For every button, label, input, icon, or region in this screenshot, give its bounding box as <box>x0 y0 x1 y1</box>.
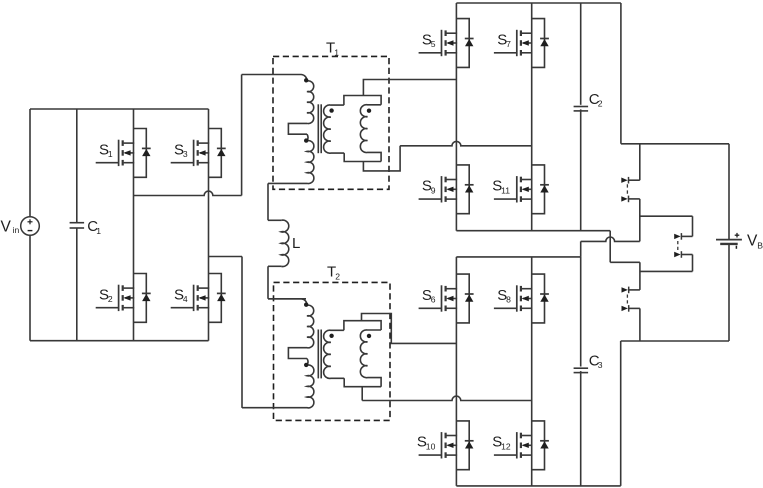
T2 primary center-tap step <box>288 348 307 359</box>
wire bottom rail of lower output bridge <box>456 485 620 487</box>
wire C2 leg <box>580 3 582 231</box>
T1 primary winding upper half <box>242 75 314 124</box>
transistor S12 <box>516 432 518 458</box>
wire node J2 to switch C <box>629 289 640 291</box>
T2 secondary parallel top wire <box>344 321 381 331</box>
wire battery - rail <box>621 340 729 342</box>
transformer T2 dashed box <box>274 282 391 420</box>
battery VB <box>716 239 742 241</box>
transistor S9 <box>441 176 443 202</box>
T2 primary lower entry <box>306 359 309 366</box>
T1 secondary output + tap <box>363 80 456 96</box>
switch C gang dashed link <box>626 295 628 306</box>
T2 secondary winding 1 <box>324 330 345 378</box>
T1 primary dot lower <box>304 138 308 142</box>
wire top rail of upper output bridge <box>456 2 621 4</box>
wire inductor to T2 primary top <box>268 265 281 267</box>
inductor L <box>281 220 288 266</box>
T1 secondary parallel top wire <box>344 96 381 106</box>
wire S6-S10 leg <box>455 257 457 486</box>
T1 core <box>317 104 319 153</box>
T2 primary winding lower coil <box>242 365 314 408</box>
transistor S2 <box>118 285 120 311</box>
switch contact C top <box>628 287 630 294</box>
T1 secondary winding 1 <box>324 105 345 153</box>
wire T1 primary bottom to inductor <box>267 183 269 220</box>
T2 primary winding upper half <box>268 299 314 348</box>
wire S8-S12 leg <box>531 257 533 486</box>
T2 secondary winding 2 <box>360 330 381 387</box>
svg-text:9: 9 <box>431 186 436 196</box>
wire left vertical above Vin <box>29 109 31 217</box>
capacitor C1 <box>70 222 85 224</box>
svg-text:11: 11 <box>501 186 510 196</box>
wire switch C output to battery - rail <box>629 307 640 309</box>
T2 primary dot upper <box>304 303 308 307</box>
transistor S4 <box>193 285 195 311</box>
T2 secondary output + tap <box>362 314 457 344</box>
T2 secondary 2 dot <box>367 334 371 338</box>
T1 secondary 2 dot <box>367 109 371 113</box>
wire switch B input stub <box>681 235 692 237</box>
svg-text:5: 5 <box>431 39 436 49</box>
svg-text:8: 8 <box>506 295 511 305</box>
capacitor C2 <box>574 105 588 110</box>
wire left vertical below Vin <box>29 235 31 341</box>
wire upper bridge bottom rail to node J2 <box>609 231 611 263</box>
svg-text:B: B <box>757 240 763 250</box>
wire node J1 branch to switch B <box>640 215 693 217</box>
wire S1-S2 leg <box>133 109 135 341</box>
svg-text:V: V <box>1 218 12 235</box>
T1 primary dot upper <box>304 78 308 82</box>
T1 primary center-tap step <box>288 123 307 134</box>
wire S5-S9 leg <box>455 3 457 231</box>
T1 secondary parallel bottom wire <box>344 153 381 161</box>
transistor S11 <box>516 176 518 202</box>
svg-text:3: 3 <box>598 360 603 370</box>
switch contact B top <box>680 233 682 240</box>
T2 core <box>317 330 319 379</box>
switch contact A bottom <box>628 196 630 203</box>
wire S7-S11 leg <box>531 3 533 231</box>
wire top rail down to switch A and battery + <box>620 3 622 144</box>
svg-text:6: 6 <box>431 295 436 305</box>
T1 primary winding lower coil <box>268 141 314 184</box>
capacitor C3 <box>574 367 588 372</box>
switch A gang dashed link <box>626 184 628 195</box>
transformer T1 dashed box <box>273 56 389 189</box>
svg-text:2: 2 <box>335 271 340 281</box>
wire switch A input <box>639 144 641 180</box>
transistor S5 <box>441 30 443 56</box>
svg-text:10: 10 <box>426 442 436 452</box>
svg-text:1: 1 <box>108 149 113 159</box>
transistor S3 <box>193 140 195 166</box>
switch B gang dashed link <box>677 241 679 252</box>
wire from S1/S2 midpoint to T1 primary top (hop over S3 leg) <box>134 191 242 195</box>
battery minus tick <box>735 246 737 249</box>
T1 secondary 1 dot <box>329 108 333 112</box>
wire S3-S4 leg <box>208 109 210 341</box>
transistor S10 <box>441 432 443 458</box>
wire C1 leg upper <box>76 109 78 223</box>
voltage source Vin <box>21 217 40 236</box>
T2 secondary 1 dot <box>329 334 333 338</box>
wire from S3/S4 midpoint to T2 primary bottom <box>209 256 243 258</box>
svg-text:7: 7 <box>506 39 511 49</box>
battery plus sign <box>735 234 740 236</box>
T1 secondary winding 2 <box>360 105 381 162</box>
switch contact C bottom <box>628 305 630 312</box>
switch contact A top <box>628 177 630 184</box>
T1 primary winding lower half <box>306 134 309 141</box>
T2 secondary output - tap <box>361 387 363 401</box>
wire switch B output to node J2 <box>681 254 692 256</box>
svg-text:12: 12 <box>501 442 511 452</box>
wire top rail of input bridge <box>30 108 209 110</box>
svg-text:3: 3 <box>183 149 188 159</box>
wire C1 leg lower <box>76 228 78 341</box>
wire C3 leg <box>580 257 582 486</box>
svg-text:1: 1 <box>96 226 101 236</box>
T2 primary dot lower <box>304 363 308 367</box>
svg-text:L: L <box>292 235 300 252</box>
wire switch A output to node J1 <box>629 198 640 200</box>
T1 secondary output - tap <box>363 146 400 171</box>
svg-text:1: 1 <box>334 47 339 57</box>
svg-text:in: in <box>13 225 20 235</box>
wire lower bridge top rail to node J1 (hop over rail-end vertical) <box>580 241 582 257</box>
svg-text:4: 4 <box>183 294 188 304</box>
T2 secondary parallel bottom wire <box>344 378 381 386</box>
wire bottom rail of input bridge <box>30 340 209 342</box>
transistor S8 <box>516 285 518 311</box>
svg-text:2: 2 <box>598 99 603 109</box>
wire bottom rail of upper output bridge <box>456 230 610 232</box>
wire top rail of lower output bridge <box>456 256 580 258</box>
svg-text:2: 2 <box>108 294 113 304</box>
transistor S1 <box>118 140 120 166</box>
switch contact B bottom <box>680 251 682 258</box>
transistor S6 <box>441 285 443 311</box>
transistor S7 <box>516 30 518 56</box>
